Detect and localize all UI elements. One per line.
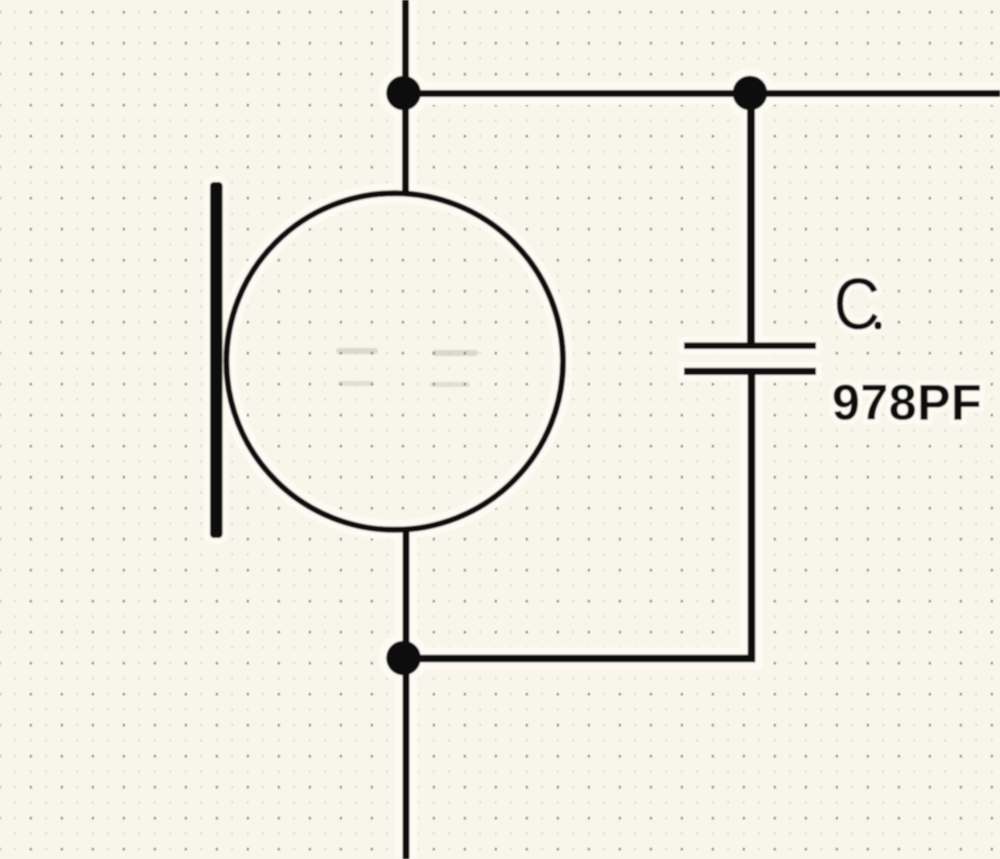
node: junction of bottom wire and microphone lower lead [386, 641, 421, 676]
capacitor C bottom plate [684, 368, 816, 375]
capacitor C top plate [684, 342, 816, 349]
faint ghost smudge 3 inside circle [338, 381, 374, 386]
microphone diaphragm plate bar [210, 182, 223, 538]
stroke halo layer (light fringe around all strokes) [204, 0, 1000, 859]
svg-text:978PF: 978PF [832, 375, 982, 431]
faint ghost smudge 2 inside circle [432, 350, 478, 356]
wire: bottom vertical lead from microphone to bottom edge [403, 528, 410, 859]
period after C [875, 322, 882, 330]
faint ghost smudge 4 inside circle [430, 382, 470, 387]
microphone capsule circle [226, 193, 563, 530]
faint ghost smudge 1 inside circle [336, 348, 378, 354]
svg-text:C: C [834, 265, 880, 345]
label C (capacitor reference designator) [834, 265, 880, 345]
wire: capacitor C bottom lead down and left to bottom node [403, 372, 752, 659]
node: junction of vertical feed and top bus [386, 76, 421, 111]
wire: top horizontal bus to right edge [402, 90, 1000, 97]
wire: capacitor C top lead [747, 93, 755, 345]
node: junction of top bus and capacitor C lead [733, 76, 768, 111]
wire: top vertical feed into microphone [402, 0, 409, 196]
